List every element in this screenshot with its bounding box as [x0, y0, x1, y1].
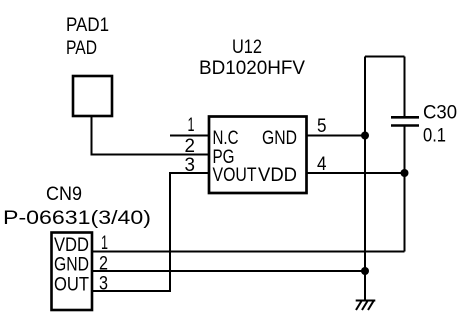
svg-text:VDD: VDD — [54, 235, 89, 256]
wire U12 pin 5 GND to left rail — [306, 135, 365, 137]
svg-text:1: 1 — [188, 115, 195, 136]
wire CN9 pin 2 GND to GND rail — [92, 270, 365, 272]
wire CN9 pin 1 VDD to right rail — [92, 251, 405, 253]
svg-text:U12: U12 — [232, 37, 262, 58]
svg-text:GND: GND — [54, 255, 89, 276]
junction dot pin4/right rail — [401, 169, 409, 177]
svg-text:4: 4 — [317, 154, 327, 175]
wire CN9 pin 3 OUT to U12 pin 3 VOUT — [92, 173, 209, 291]
connector CN9 body — [52, 233, 93, 311]
svg-text:CN9: CN9 — [46, 184, 82, 205]
pad PAD1 — [73, 76, 112, 116]
junction dot pin5/GND rail — [361, 132, 369, 140]
svg-text:P-06631(3/40): P-06631(3/40) — [3, 208, 151, 229]
U12 pin 1 N.C stub — [170, 135, 209, 137]
wire left vertical GND rail — [364, 57, 366, 301]
svg-text:VOUT: VOUT — [213, 165, 257, 186]
IC U12 body — [209, 117, 307, 194]
wire U12 pin 4 VDD to right rail — [306, 172, 405, 174]
svg-text:C30: C30 — [423, 103, 457, 124]
wire right vertical below C30 — [404, 126, 406, 252]
ground — [356, 301, 376, 311]
wire top rail — [365, 56, 405, 58]
capacitor C30 — [391, 117, 419, 125]
svg-text:2: 2 — [185, 136, 196, 157]
svg-text:PAD: PAD — [66, 38, 97, 59]
svg-text:OUT: OUT — [54, 275, 89, 296]
wire PAD1 to U12 pin 2 — [92, 116, 210, 155]
junction dot GND wire/GND rail — [361, 267, 369, 275]
svg-text:VDD: VDD — [258, 165, 297, 186]
svg-text:0.1: 0.1 — [423, 126, 446, 147]
wire right vertical above C30 — [404, 57, 406, 118]
svg-text:GND: GND — [262, 128, 297, 149]
svg-text:BD1020HFV: BD1020HFV — [199, 58, 305, 79]
svg-text:PAD1: PAD1 — [66, 15, 109, 36]
svg-text:5: 5 — [317, 116, 327, 137]
svg-text:N.C: N.C — [213, 128, 239, 149]
